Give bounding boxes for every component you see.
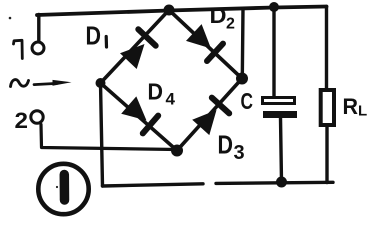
svg-text:D: D [210, 3, 227, 28]
capacitor C bottom plate [263, 111, 297, 118]
svg-text:3: 3 [234, 142, 245, 164]
wire RL top lead [325, 7, 328, 90]
diode D4 [121, 96, 158, 133]
label 1 [14, 40, 23, 58]
wire bridge left-bottom [101, 83, 178, 151]
svg-text:R: R [343, 94, 359, 119]
scan speck inside figure marker [56, 186, 58, 188]
diode D3 [192, 98, 229, 136]
wire terminal2 to bottom node [41, 125, 176, 150]
resistor RL [321, 90, 334, 125]
diode D1 [120, 29, 156, 69]
label RL [343, 94, 368, 120]
label D1 [86, 20, 107, 50]
figure marker circled 1 [38, 164, 88, 214]
terminal 2 circle [31, 111, 43, 123]
capacitor C top plate [263, 98, 295, 104]
svg-text:2: 2 [226, 16, 235, 33]
label D4 [148, 78, 176, 108]
wire left node drop [101, 83, 103, 186]
svg-text:C: C [241, 88, 254, 114]
wire capacitor bottom lead [281, 118, 282, 182]
label D2 [210, 3, 236, 32]
ac arrow [34, 80, 72, 86]
node left junction [96, 78, 106, 88]
svg-text:2: 2 [15, 108, 29, 133]
diode D2 [186, 24, 223, 61]
wire bridge top-right [169, 10, 242, 79]
svg-text:D: D [218, 132, 234, 160]
svg-text:L: L [358, 103, 367, 120]
svg-text:4: 4 [166, 90, 176, 109]
wire terminal1 riser [37, 15, 40, 43]
wire top rail [37, 7, 327, 16]
node bottom junction [171, 145, 183, 157]
wire capacitor top lead [272, 8, 275, 98]
wire right node riser [241, 9, 245, 79]
ac source tilde [11, 80, 29, 87]
label D3 [218, 132, 245, 164]
wire bottom rail [103, 182, 334, 186]
wire bridge left-top [101, 10, 170, 83]
wire bridge bottom-right [177, 79, 242, 151]
terminal 1 circle [32, 42, 44, 54]
node capacitor rail junction [269, 2, 279, 12]
node bottom rail capacitor junction [276, 177, 287, 188]
scan speck top left [9, 17, 12, 20]
svg-text:D: D [86, 20, 102, 50]
node top junction [164, 5, 175, 16]
wire RL bottom lead [325, 127, 328, 183]
svg-text:D: D [148, 78, 164, 104]
node right junction [236, 73, 248, 85]
